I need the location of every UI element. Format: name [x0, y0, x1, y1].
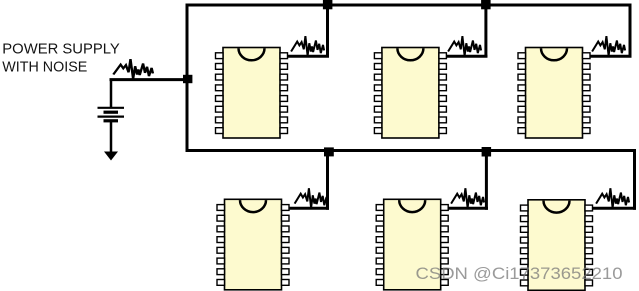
wire U2 supply — [446, 55, 487, 58]
IC U4 — [217, 199, 289, 289]
wire battery bottom lead — [110, 121, 113, 153]
junction top bus / U1 — [323, 0, 333, 9]
wire top bus — [186, 4, 632, 7]
svg-text:CSDN @Ci17373652210: CSDN @Ci17373652210 — [416, 265, 623, 283]
noise squiggle at U2 — [448, 36, 481, 56]
junction power supply to bus — [183, 75, 192, 83]
noise squiggle at power supply — [113, 59, 153, 79]
junction bottom bus / U5 — [482, 147, 492, 157]
noise squiggle at U1 — [291, 36, 324, 56]
battery V1 — [98, 108, 125, 121]
wire battery top lead — [110, 80, 113, 108]
wire U6 supply — [592, 207, 636, 210]
wire U3 supply — [590, 55, 632, 58]
wire right vertical (top row, to U3) — [629, 4, 632, 58]
junction bottom bus / U4 — [324, 147, 334, 156]
wire drop to U4 — [326, 151, 329, 210]
wire power supply horizontal — [110, 78, 189, 81]
IC U1 — [216, 48, 288, 139]
noise squiggle at U6 — [596, 188, 629, 208]
ground arrow — [104, 152, 118, 161]
svg-text:WITH NOISE: WITH NOISE — [2, 60, 87, 76]
wire U5 supply — [448, 207, 488, 210]
noise squiggle at U5 — [451, 188, 484, 208]
wire drop to U1 — [326, 5, 329, 58]
IC U5 — [376, 199, 448, 289]
wire left vertical bus — [186, 4, 189, 153]
wire U4 supply — [289, 207, 330, 210]
wire drop to U2 — [484, 5, 487, 58]
svg-text:POWER SUPPLY: POWER SUPPLY — [2, 42, 120, 58]
IC U3 — [518, 48, 590, 139]
junction top bus / U2 — [481, 0, 491, 9]
wire bottom bus — [186, 149, 637, 152]
wire U1 supply — [287, 55, 329, 58]
noise squiggle at U4 — [295, 188, 328, 208]
noise squiggle at U3 — [592, 36, 625, 56]
IC U2 — [374, 48, 446, 139]
wire right vertical (bottom row, to U6) — [633, 149, 636, 210]
IC U6 — [521, 200, 593, 290]
wire drop to U5 — [485, 151, 488, 210]
